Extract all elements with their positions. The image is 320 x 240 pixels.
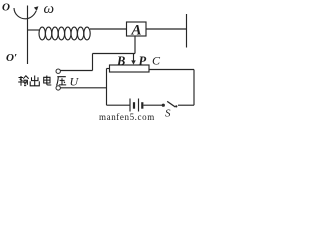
svg-text:ω: ω — [44, 1, 55, 17]
svg-text:P: P — [139, 54, 147, 68]
svg-text:O′: O′ — [6, 52, 17, 64]
svg-text:S: S — [165, 108, 171, 120]
svg-text:B: B — [116, 54, 125, 68]
svg-text:U: U — [70, 75, 80, 89]
svg-text:O: O — [2, 2, 10, 14]
svg-text:C: C — [152, 54, 161, 68]
svg-text:A: A — [131, 22, 142, 38]
svg-text:manfen5.com: manfen5.com — [99, 112, 155, 122]
